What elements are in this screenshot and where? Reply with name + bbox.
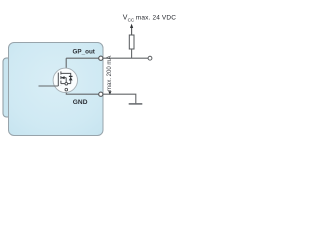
terminal GND (on housing edge) <box>99 92 103 96</box>
svg-text:GP_out: GP_out <box>73 48 96 55</box>
device box (sensor housing) <box>9 43 104 136</box>
svg-text:max. 24 VDC: max. 24 VDC <box>136 14 176 21</box>
Q1 drain stub <box>61 73 71 76</box>
Q1 channel (dashed) <box>60 71 62 85</box>
svg-text:max. 200 mA: max. 200 mA <box>107 56 113 91</box>
resistor R (pull-up) <box>129 35 134 49</box>
Q1 source lead ring (lower) <box>65 88 68 91</box>
ground <box>129 103 143 105</box>
current arrow head (down) <box>108 91 111 94</box>
wire resistor top lead / Vcc arrow shaft <box>131 28 133 36</box>
wire gate lead <box>39 85 59 87</box>
Q1 source junction ring <box>65 82 68 85</box>
wire resistor bottom lead <box>131 49 133 58</box>
body diode D (cathode bar + triangle) <box>70 76 72 83</box>
wire GND (source to ground corner) <box>66 84 136 104</box>
device back panel <box>3 58 93 117</box>
svg-text:GND: GND <box>73 99 88 106</box>
terminal GP_out (on housing edge) <box>99 56 103 60</box>
Q1 gate electrode <box>57 73 59 86</box>
Vcc arrow head <box>130 24 133 28</box>
Q1 source stub <box>61 83 71 85</box>
svg-text:CC: CC <box>128 17 135 22</box>
wire drain vertical <box>65 58 67 73</box>
Q1 body-source tie <box>65 78 67 84</box>
Q1 body arrow (points to channel) <box>61 77 66 79</box>
terminal external GP_out (open circle) <box>148 56 152 60</box>
transistor Q1 (N-MOSFET) body circle <box>53 68 77 92</box>
wire GP_out (horizontal, drain to outer terminal) <box>66 57 148 59</box>
